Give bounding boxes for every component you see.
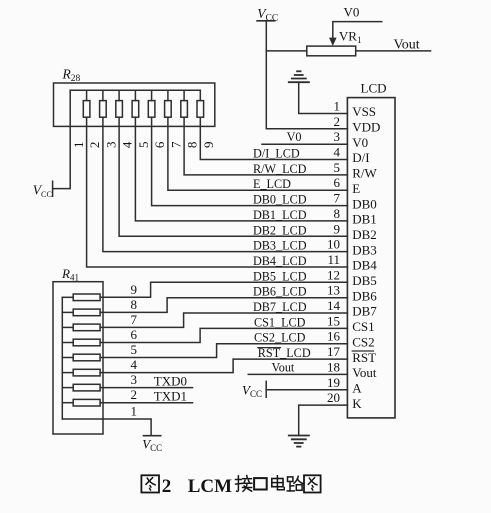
svg-text:16: 16	[327, 329, 341, 344]
resistor R28-c	[116, 90, 123, 117]
svg-text:LCD: LCD	[361, 81, 387, 96]
svg-text:1: 1	[71, 142, 86, 149]
svg-text:9: 9	[201, 142, 216, 149]
svg-text:E_LCD: E_LCD	[253, 177, 291, 191]
resistor R41-c	[62, 324, 100, 331]
resistor R41-d	[62, 339, 100, 346]
R28 common bus wire	[70, 89, 200, 91]
svg-text:VSS: VSS	[352, 104, 376, 119]
svg-text:3: 3	[131, 372, 138, 387]
overline RST row label	[258, 347, 281, 349]
resistor R28-a	[83, 90, 90, 117]
resistor network R41 box	[53, 282, 103, 434]
Vcc bar below R41	[144, 435, 161, 437]
svg-text:2: 2	[334, 114, 341, 129]
svg-text:A: A	[352, 381, 362, 396]
svg-text:DB0_LCD: DB0_LCD	[253, 193, 307, 207]
svg-text:14: 14	[327, 298, 341, 313]
svg-text:4: 4	[120, 141, 135, 148]
wire R28 pin9 to D/I row	[200, 117, 347, 159]
svg-text:E: E	[352, 181, 360, 196]
svg-text:13: 13	[327, 283, 340, 298]
caption glyph 图	[141, 475, 159, 492]
svg-text:R/W: R/W	[352, 166, 377, 181]
svg-text:7: 7	[131, 312, 138, 327]
caption glyph 电	[272, 476, 284, 490]
svg-text:2: 2	[87, 142, 102, 149]
svg-text:7: 7	[169, 141, 184, 148]
svg-text:10: 10	[327, 237, 340, 252]
svg-text:8: 8	[334, 206, 341, 221]
LCD pin name column	[352, 104, 380, 411]
svg-text:RST: RST	[352, 350, 376, 365]
LCD box	[347, 98, 395, 418]
svg-text:15: 15	[327, 313, 340, 328]
svg-text:DB3: DB3	[352, 242, 377, 257]
Vout row wire (pin18)	[248, 373, 347, 375]
svg-text:7: 7	[334, 191, 341, 206]
wire Vcc to VDD pin2	[266, 21, 347, 129]
svg-text:DB5: DB5	[352, 273, 377, 288]
resistor R28-f	[165, 90, 172, 117]
svg-text:5: 5	[131, 342, 138, 357]
V0 row wire (pin3)	[262, 143, 347, 145]
svg-text:DB5_LCD: DB5_LCD	[253, 269, 307, 283]
Vcc tick at pin19	[265, 381, 267, 397]
svg-text:Vout: Vout	[272, 360, 295, 374]
svg-text:V0: V0	[352, 135, 368, 150]
svg-text:TXD1: TXD1	[154, 389, 187, 404]
V0 net wire (top)	[333, 22, 382, 40]
svg-text:2: 2	[131, 387, 138, 402]
resistor network R28 box	[54, 83, 215, 126]
svg-text:DB6: DB6	[352, 288, 377, 303]
svg-text:1: 1	[131, 404, 138, 419]
wire R28 pin1 common to Vcc	[53, 90, 71, 188]
resistor R41-b	[62, 309, 100, 316]
wire R28 pin5 to DB1 row	[135, 117, 347, 221]
svg-text:CS2_LCD: CS2_LCD	[254, 331, 306, 345]
resistor R41-h	[62, 399, 100, 406]
wire R28 pin2 to DB4 row	[87, 117, 348, 267]
wire Vcc to Vout through VR1	[266, 50, 430, 52]
svg-text:20: 20	[327, 390, 340, 405]
svg-text:D/I_LCD: D/I_LCD	[253, 147, 300, 161]
svg-text:DB7_LCD: DB7_LCD	[253, 300, 307, 314]
resistor R41-e	[62, 354, 100, 361]
svg-text:DB0: DB0	[352, 196, 377, 211]
svg-text:3: 3	[334, 129, 341, 144]
svg-text:DB4: DB4	[352, 258, 377, 273]
overline RST pin label	[352, 350, 373, 352]
svg-text:DB2_LCD: DB2_LCD	[253, 223, 307, 237]
R41 common bus wire	[61, 297, 63, 419]
wire R41 pin7 to DB7 row	[100, 313, 347, 327]
svg-text:4: 4	[334, 145, 341, 160]
resistor R41-a	[62, 294, 100, 301]
svg-text:6: 6	[131, 327, 138, 342]
svg-text:Vout: Vout	[352, 365, 377, 380]
wire R41 pin1 to Vcc	[62, 419, 151, 436]
resistor R28-b	[100, 90, 107, 117]
svg-text:DB4_LCD: DB4_LCD	[253, 254, 307, 268]
caption glyph 接	[236, 476, 252, 492]
svg-text:DB2: DB2	[352, 227, 377, 242]
svg-text:DB3_LCD: DB3_LCD	[253, 239, 307, 253]
resistor R41-f	[62, 369, 100, 376]
wire R41 pin5 to CS2 row	[100, 344, 347, 358]
wire R28 pin3 to DB3 row	[103, 117, 348, 251]
svg-text:RST_LCD: RST_LCD	[258, 346, 311, 360]
svg-text:6: 6	[152, 141, 167, 148]
svg-text:V0: V0	[344, 5, 360, 20]
Vcc bar (top left)	[257, 20, 275, 22]
wire ground to VSS pin1	[299, 82, 348, 113]
svg-text:19: 19	[327, 375, 340, 390]
Vcc tick at R28 pin 1	[52, 181, 54, 196]
svg-text:3: 3	[104, 142, 119, 149]
svg-text:8: 8	[131, 297, 138, 312]
svg-text:VDD: VDD	[352, 120, 380, 135]
svg-text:2: 2	[162, 476, 172, 497]
resistor R28-d	[132, 90, 139, 117]
potentiometer VR1 body	[307, 46, 356, 56]
net label column (left of LCD)	[253, 130, 311, 374]
wire R41 pin4 to RST row	[100, 359, 347, 373]
svg-text:TXD0: TXD0	[154, 374, 187, 389]
svg-text:LCM: LCM	[188, 476, 232, 497]
svg-text:DB6_LCD: DB6_LCD	[253, 285, 307, 299]
wire R41 pin6 to CS1 row	[100, 328, 347, 342]
svg-text:1: 1	[334, 99, 341, 114]
svg-text:DB7: DB7	[352, 304, 377, 319]
caption glyph 路	[287, 476, 303, 491]
svg-text:18: 18	[327, 359, 340, 374]
svg-text:4: 4	[131, 357, 138, 372]
caption glyph 口	[254, 478, 267, 489]
wire R41 pin9 to DB5 row	[100, 282, 347, 297]
svg-text:5: 5	[334, 160, 341, 175]
wire K pin20 to ground	[299, 405, 348, 435]
svg-text:CS1_LCD: CS1_LCD	[254, 315, 306, 329]
svg-text:R/W_LCD: R/W_LCD	[253, 162, 307, 176]
caption glyph 图 (second)	[304, 475, 321, 492]
wire R28 pin6 to DB0 row	[152, 117, 348, 205]
svg-text:K: K	[352, 396, 362, 411]
svg-text:5: 5	[136, 142, 151, 149]
ground (bottom)	[289, 436, 309, 447]
svg-text:D/I: D/I	[352, 150, 369, 165]
resistor R28-g	[181, 90, 188, 117]
resistor R28-e	[148, 90, 155, 117]
VR1 wiper arrow	[329, 38, 337, 46]
svg-text:9: 9	[334, 221, 341, 236]
svg-text:V0: V0	[287, 130, 302, 144]
wire R41 pin8 to DB6 row	[100, 298, 347, 313]
wire R28 pin7 to E row	[168, 117, 348, 190]
svg-text:Vout: Vout	[394, 38, 420, 53]
svg-text:9: 9	[131, 282, 138, 297]
LCD pin numbers column	[327, 99, 341, 406]
svg-text:8: 8	[185, 142, 200, 149]
wire R28 pin4 to DB2 row	[119, 117, 347, 236]
ground (top)	[289, 71, 309, 82]
wire R41 pin2 TXD1	[100, 402, 192, 404]
svg-text:17: 17	[327, 344, 341, 359]
resistor R41-g	[62, 384, 100, 391]
svg-text:6: 6	[334, 175, 341, 190]
svg-text:CS2: CS2	[352, 334, 374, 349]
svg-text:DB1_LCD: DB1_LCD	[253, 208, 307, 222]
svg-text:DB1: DB1	[352, 212, 377, 227]
svg-text:CS1: CS1	[352, 319, 374, 334]
wire R28 pin8 to R/W row	[184, 117, 347, 175]
wire R41 pin3 TXD0	[100, 387, 192, 389]
resistor R28-h	[197, 90, 204, 117]
svg-text:11: 11	[327, 252, 340, 267]
svg-text:12: 12	[327, 267, 340, 282]
wire Vcc to A pin19	[266, 389, 347, 391]
figure caption "图 2 LCM接口电路图"	[141, 475, 320, 497]
